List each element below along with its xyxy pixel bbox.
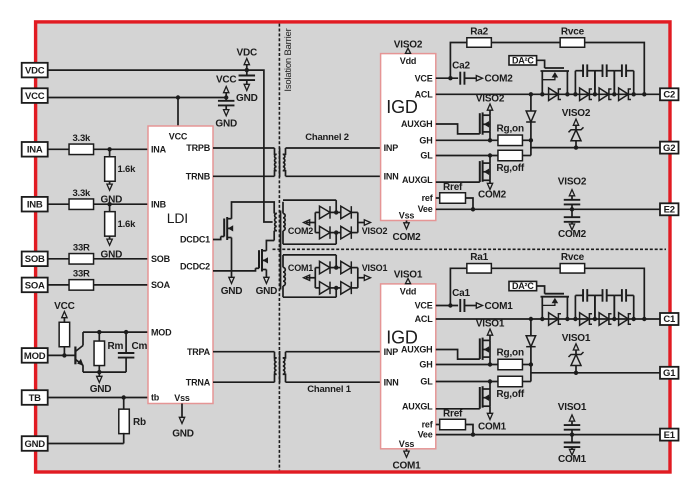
diode active clamp ch2 bbox=[530, 94, 532, 111]
svg-text:3.3k: 3.3k bbox=[72, 188, 91, 199]
diode D1c (desat chain 3) bbox=[599, 313, 609, 326]
wire Rg outputs to gate node ch2 bbox=[523, 139, 531, 141]
svg-text:INA: INA bbox=[27, 145, 43, 156]
diode D1d (desat chain 4) bbox=[619, 313, 629, 326]
connector TB bbox=[22, 390, 48, 405]
capacitor Ca1 bbox=[459, 299, 461, 312]
diode zener gate clamp ch1 bbox=[569, 352, 584, 357]
svg-text:ACL: ACL bbox=[415, 90, 434, 100]
svg-text:VISO2: VISO2 bbox=[558, 177, 587, 188]
svg-text:Rvce: Rvce bbox=[561, 252, 585, 263]
diode bridge COM2 row1 right bbox=[331, 211, 341, 213]
node VISO2 output bbox=[357, 212, 359, 232]
wire VCE line ch1 bbox=[436, 305, 458, 307]
diode bridge COM2 row2 right bbox=[331, 232, 341, 234]
resistor Rvce ch1 bbox=[560, 264, 585, 274]
svg-text:VCC: VCC bbox=[25, 91, 45, 102]
resistor MOD pull-up bbox=[59, 322, 70, 347]
op-amp U1 LDI driver IC bbox=[148, 126, 213, 404]
diode D2d (desat chain 4) bbox=[619, 88, 629, 101]
resistor 33R (SOB) bbox=[69, 254, 94, 264]
svg-text:GND: GND bbox=[236, 93, 258, 104]
svg-text:DA²C: DA²C bbox=[512, 281, 534, 291]
node VISO1 output bbox=[357, 268, 359, 288]
svg-text:TB: TB bbox=[29, 393, 42, 404]
diode bridge COM1 row2 right bbox=[331, 287, 341, 289]
wire ACL / C1 line bbox=[436, 318, 660, 320]
svg-text:TRPB: TRPB bbox=[186, 143, 210, 153]
diode bridge COM1 row1 right bbox=[331, 267, 341, 269]
connector MOD bbox=[22, 348, 48, 363]
svg-text:VCC: VCC bbox=[169, 132, 188, 142]
connector G1 bbox=[660, 367, 679, 379]
wire G1 line bbox=[531, 372, 660, 374]
svg-text:AUXGH: AUXGH bbox=[401, 119, 433, 129]
wire SOB line bbox=[48, 258, 148, 260]
resistor 3.3k (INA) bbox=[69, 144, 94, 155]
op-amp U IGD gate driver channel 2 bbox=[381, 54, 436, 221]
svg-text:33R: 33R bbox=[73, 243, 90, 254]
resistor Rvce ch2 bbox=[560, 38, 585, 48]
svg-text:1.6k: 1.6k bbox=[118, 164, 137, 175]
wire Rref to Vee ch1 bbox=[466, 425, 474, 435]
node COM1 (IGD Vss) bbox=[406, 449, 408, 451]
svg-text:VISO2: VISO2 bbox=[562, 108, 591, 119]
wire ref line ch2 bbox=[436, 197, 440, 199]
resistor Rg,on ch1 bbox=[498, 359, 523, 370]
diode D2c (desat chain 3) bbox=[599, 88, 609, 101]
wire bridge loop COM1 bbox=[283, 254, 336, 256]
transformer T1 secondary ch1 bbox=[282, 255, 284, 268]
svg-text:DCDC2: DCDC2 bbox=[180, 262, 210, 272]
connector SOA bbox=[22, 278, 48, 293]
svg-text:SOB: SOB bbox=[25, 254, 45, 265]
svg-text:Vee: Vee bbox=[418, 204, 433, 214]
svg-text:E2: E2 bbox=[664, 205, 675, 216]
wire INB line bbox=[48, 203, 148, 205]
diode D1b (desat chain 2) bbox=[580, 313, 590, 326]
resistor Rg,off ch1 bbox=[498, 376, 523, 387]
svg-text:GND: GND bbox=[215, 119, 237, 130]
wire DCDC1 drain to primary bbox=[232, 202, 275, 219]
svg-text:Vdd: Vdd bbox=[400, 286, 416, 296]
svg-text:GH: GH bbox=[419, 136, 432, 146]
wire boost source to GH ch1 bbox=[489, 357, 491, 364]
svg-text:TRNB: TRNB bbox=[186, 172, 211, 182]
resistor Rg,on ch2 bbox=[498, 135, 523, 146]
svg-text:SOB: SOB bbox=[151, 254, 171, 264]
wire DCDC2 source to ground bbox=[265, 270, 267, 278]
diode active clamp ch1 bbox=[530, 319, 532, 336]
wire TB line bbox=[48, 397, 148, 399]
wire bridge loop COM2 bbox=[283, 199, 336, 201]
wire Rvce to collector ch1 bbox=[585, 268, 645, 319]
svg-text:GH: GH bbox=[419, 360, 432, 370]
svg-text:INP: INP bbox=[384, 143, 399, 153]
wire INA line bbox=[48, 148, 148, 150]
wire GND connector line bbox=[48, 443, 124, 445]
wire GH line ch1 bbox=[436, 364, 498, 366]
svg-text:Ca1: Ca1 bbox=[452, 288, 470, 299]
capacitor E2-COM2 bbox=[571, 209, 573, 217]
diode bridge COM2 row1 left bbox=[315, 211, 319, 213]
connector C2 bbox=[660, 88, 679, 100]
resistor Ra1 bbox=[467, 264, 492, 274]
wire GH line ch2 bbox=[436, 139, 498, 141]
wire INN channel1 bbox=[286, 381, 382, 383]
svg-text:GND: GND bbox=[256, 286, 278, 297]
transformer T1 secondary ch2 bbox=[282, 202, 284, 214]
svg-text:INA: INA bbox=[151, 145, 167, 155]
svg-text:Rvce: Rvce bbox=[561, 26, 585, 37]
resistor Ra2 bbox=[467, 38, 492, 48]
svg-text:3.3k: 3.3k bbox=[72, 133, 91, 144]
ground (INB 1.6k) bbox=[107, 239, 112, 245]
svg-text:VISO1: VISO1 bbox=[558, 402, 587, 413]
svg-text:TRNA: TRNA bbox=[186, 377, 211, 387]
connector SOB bbox=[22, 252, 48, 267]
wire DCDC2 drain to primary bbox=[266, 241, 274, 251]
node COM2 (sink source) bbox=[489, 180, 491, 183]
svg-text:Vss: Vss bbox=[399, 211, 415, 221]
svg-text:DA²C: DA²C bbox=[512, 55, 534, 65]
svg-text:INN: INN bbox=[384, 172, 399, 182]
node VCC (arrow up) bbox=[225, 92, 227, 98]
svg-text:VISO2: VISO2 bbox=[476, 94, 505, 105]
svg-text:SOA: SOA bbox=[151, 280, 171, 290]
svg-text:ACL: ACL bbox=[415, 314, 434, 324]
transformer T1 core bbox=[280, 211, 282, 290]
svg-text:Channel 2: Channel 2 bbox=[305, 132, 349, 143]
wire emitter rail bbox=[83, 371, 126, 373]
wire Vee / E1 line bbox=[436, 434, 660, 436]
capacitor Cm bbox=[125, 332, 127, 353]
wire G2 line bbox=[531, 147, 660, 149]
wire MOD line bbox=[48, 354, 75, 356]
svg-text:TRPA: TRPA bbox=[187, 347, 211, 357]
transistor bypass MOSFET ch1 bbox=[537, 286, 545, 294]
svg-text:1.6k: 1.6k bbox=[118, 219, 137, 230]
diode bridge COM2 row2 left bbox=[315, 232, 319, 234]
transformer T2 (TRPB/TRNB) bbox=[213, 147, 275, 149]
svg-text:Vss: Vss bbox=[399, 439, 415, 449]
svg-text:VDC: VDC bbox=[237, 48, 258, 59]
svg-text:COM2: COM2 bbox=[288, 226, 313, 236]
diode D2a (desat chain 1) bbox=[549, 88, 559, 101]
node VISO2 (IGD Vdd) bbox=[405, 48, 410, 53]
diode zener gate clamp ch2 bbox=[569, 127, 584, 132]
svg-text:VCC: VCC bbox=[216, 75, 237, 86]
svg-text:Isolation Barrier: Isolation Barrier bbox=[283, 28, 294, 91]
wire Ra2 branch bbox=[450, 43, 467, 79]
transistor sink N-MOSFET ch1 bbox=[436, 408, 480, 410]
svg-text:Ca2: Ca2 bbox=[452, 61, 470, 72]
svg-text:Vee: Vee bbox=[418, 429, 433, 439]
connector E2 bbox=[660, 203, 679, 215]
wire DCDC1 source to ground bbox=[231, 238, 233, 278]
wire Ra1 to Rvce bbox=[491, 267, 560, 269]
svg-text:VISO1: VISO1 bbox=[476, 319, 505, 330]
svg-text:33R: 33R bbox=[73, 269, 90, 280]
diode D2b (desat chain 2) bbox=[580, 88, 590, 101]
svg-text:DCDC1: DCDC1 bbox=[180, 235, 210, 245]
svg-text:COM2: COM2 bbox=[558, 229, 587, 240]
connector VCC bbox=[22, 88, 48, 103]
svg-text:Cm: Cm bbox=[132, 341, 148, 352]
svg-text:COM2: COM2 bbox=[478, 189, 507, 200]
svg-text:Rb: Rb bbox=[133, 417, 146, 428]
svg-text:E1: E1 bbox=[664, 430, 676, 441]
svg-text:COM2: COM2 bbox=[392, 232, 421, 243]
op-amp U IGD gate driver channel 1 bbox=[381, 284, 436, 449]
diode bridge COM1 row1 left bbox=[315, 267, 319, 269]
wire ACL / C2 line bbox=[436, 93, 660, 95]
capacitor E1-COM1 bbox=[571, 435, 573, 443]
svg-text:AUXGL: AUXGL bbox=[402, 175, 433, 185]
wire boost source to GH ch2 bbox=[489, 132, 491, 140]
node COM1 (sink source) bbox=[489, 406, 491, 413]
capacitor VDC decoupling bbox=[246, 70, 248, 75]
ground (INA 1.6k) bbox=[107, 184, 112, 190]
svg-text:Rm: Rm bbox=[108, 341, 124, 352]
svg-text:COM1: COM1 bbox=[558, 454, 587, 465]
transistor boost P-MOSFET ch2 bbox=[436, 124, 480, 134]
node COM1 output bbox=[314, 268, 316, 288]
svg-text:GL: GL bbox=[420, 151, 433, 161]
capacitor VISO1-E1 bbox=[564, 424, 581, 426]
svg-text:GND: GND bbox=[172, 429, 194, 440]
transistor bypass MOSFET ch2 bbox=[537, 60, 545, 68]
diode D1a (desat chain 1) bbox=[549, 313, 559, 326]
ground (DCDC2) bbox=[264, 277, 269, 283]
wire Rvce to collector ch2 bbox=[585, 43, 645, 95]
svg-text:GND: GND bbox=[24, 439, 45, 450]
resistor Rg,off ch2 bbox=[498, 150, 523, 161]
capacitor VISO2-E2 bbox=[564, 199, 581, 201]
transistor boost P-MOSFET ch1 bbox=[436, 350, 480, 360]
svg-text:Ra2: Ra2 bbox=[470, 26, 488, 37]
node COM1 (after Ca1) bbox=[464, 305, 476, 307]
svg-text:MOD: MOD bbox=[24, 351, 46, 362]
channel separation (horizontal dashed line) bbox=[273, 248, 667, 250]
wire GL line ch1 bbox=[436, 381, 498, 383]
capacitor chain caps ch2 bbox=[574, 71, 576, 95]
diode bridge COM1 row2 left bbox=[315, 287, 319, 289]
svg-text:G1: G1 bbox=[663, 368, 676, 379]
svg-text:SOA: SOA bbox=[25, 280, 45, 291]
svg-text:Rg,on: Rg,on bbox=[497, 123, 524, 134]
svg-text:VISO2: VISO2 bbox=[394, 39, 423, 50]
wire Ra2 to Rvce bbox=[491, 42, 560, 44]
connector INA bbox=[22, 142, 48, 157]
transistor DCDC1 MOSFET bbox=[213, 237, 221, 240]
svg-text:LDI: LDI bbox=[167, 210, 188, 226]
ground (VDC cap) bbox=[244, 84, 249, 90]
wire INP channel1 bbox=[286, 351, 382, 353]
svg-text:VCE: VCE bbox=[415, 73, 433, 83]
svg-text:Ra1: Ra1 bbox=[470, 252, 488, 263]
capacitor chain caps ch1 bbox=[574, 295, 576, 319]
transistor DCDC2 MOSFET bbox=[213, 268, 256, 271]
transistor Q1 (MOD) bbox=[74, 347, 76, 365]
ground (DCDC1) bbox=[229, 277, 234, 283]
svg-text:C1: C1 bbox=[663, 314, 676, 325]
node COM2 (IGD Vss) bbox=[406, 221, 408, 223]
svg-text:MOD: MOD bbox=[151, 327, 172, 337]
node COM2 (after Ca2) bbox=[464, 77, 476, 79]
wire SOA line bbox=[48, 284, 148, 286]
svg-text:Rref: Rref bbox=[443, 182, 463, 193]
resistor 33R (SOA) bbox=[69, 280, 94, 291]
wire VCC to LDI bbox=[177, 98, 179, 127]
svg-text:Vdd: Vdd bbox=[400, 56, 416, 66]
svg-text:COM1: COM1 bbox=[392, 460, 421, 471]
resistor 1.6k (INA pulldown) bbox=[109, 149, 111, 157]
svg-text:COM1: COM1 bbox=[478, 422, 507, 433]
wire ref line ch1 bbox=[436, 424, 440, 426]
svg-text:GL: GL bbox=[420, 377, 433, 387]
resistor Rm bbox=[98, 332, 100, 341]
connector GND bbox=[22, 436, 48, 451]
svg-text:COM2: COM2 bbox=[485, 74, 514, 85]
transformer T3 (TRPA/TRNA) bbox=[213, 351, 275, 353]
resistor Rref ch1 bbox=[440, 419, 466, 430]
svg-text:AUXGH: AUXGH bbox=[401, 345, 433, 355]
wire VCE line ch2 bbox=[436, 77, 458, 79]
ground (MOD emitter) bbox=[98, 372, 100, 376]
node COM2 output bbox=[314, 212, 316, 232]
svg-text:INN: INN bbox=[384, 377, 399, 387]
svg-text:VISO2: VISO2 bbox=[362, 226, 388, 236]
DA²C block ch2 bbox=[509, 56, 537, 65]
transformer T1 DCDC (primary) bbox=[275, 214, 277, 231]
wire INP channel2 bbox=[286, 147, 381, 149]
isolation barrier (vertical dashed line) bbox=[278, 24, 280, 471]
svg-text:INB: INB bbox=[151, 199, 167, 209]
svg-text:tb: tb bbox=[151, 393, 160, 403]
wire Rg outputs to gate node ch1 bbox=[523, 364, 531, 366]
connector E1 bbox=[660, 429, 679, 441]
wire MOD rail (collector to LDI MOD pin) bbox=[83, 331, 148, 333]
resistor 1.6k (INB pulldown) bbox=[109, 204, 111, 212]
svg-text:G2: G2 bbox=[663, 143, 675, 154]
svg-text:VISO1: VISO1 bbox=[562, 333, 591, 344]
DA²C block ch1 bbox=[509, 281, 537, 290]
capacitor Ca2 bbox=[459, 72, 461, 85]
node VISO1 (IGD Vdd) bbox=[405, 279, 410, 284]
ground (VCC cap) bbox=[224, 110, 229, 116]
resistor Rb bbox=[123, 398, 125, 410]
resistor 3.3k (INB) bbox=[69, 199, 94, 210]
svg-text:ref: ref bbox=[422, 193, 434, 203]
wire INN channel2 bbox=[286, 175, 381, 177]
resistor Rref ch2 bbox=[440, 193, 466, 204]
svg-text:IGD: IGD bbox=[386, 97, 418, 117]
svg-text:VDC: VDC bbox=[25, 66, 45, 77]
connector C1 bbox=[660, 313, 679, 325]
svg-text:INP: INP bbox=[384, 347, 399, 357]
svg-text:Rg,off: Rg,off bbox=[496, 389, 525, 400]
svg-text:ref: ref bbox=[422, 420, 434, 430]
svg-text:VCE: VCE bbox=[415, 301, 433, 311]
node VDC (arrow up) bbox=[246, 65, 248, 71]
svg-text:COM1: COM1 bbox=[288, 263, 313, 273]
connector INB bbox=[22, 197, 48, 212]
capacitor VCC decoupling bbox=[225, 98, 227, 101]
svg-text:GND: GND bbox=[90, 384, 112, 395]
svg-text:Rg,on: Rg,on bbox=[497, 348, 524, 359]
connector VDC bbox=[22, 63, 48, 78]
wire Ra1 branch bbox=[450, 268, 467, 305]
wire VDC rail bbox=[48, 70, 273, 222]
transistor sink N-MOSFET ch2 bbox=[436, 181, 480, 183]
svg-text:AUXGL: AUXGL bbox=[402, 402, 433, 412]
wire VCC rail bbox=[48, 97, 227, 99]
svg-text:INB: INB bbox=[27, 200, 43, 211]
svg-text:VISO1: VISO1 bbox=[362, 263, 388, 273]
wire GL line ch2 bbox=[436, 155, 498, 157]
svg-text:Rref: Rref bbox=[443, 409, 463, 420]
wire Rref to Vee ch2 bbox=[466, 198, 474, 209]
svg-text:Vss: Vss bbox=[174, 393, 190, 403]
svg-text:Channel 1: Channel 1 bbox=[307, 384, 352, 395]
svg-text:VISO1: VISO1 bbox=[394, 270, 423, 281]
ground (LDI Vss) bbox=[181, 404, 183, 418]
svg-text:GND: GND bbox=[221, 286, 243, 297]
connector G2 bbox=[660, 142, 679, 154]
wire Vee / E2 line bbox=[436, 208, 660, 210]
svg-text:COM1: COM1 bbox=[485, 301, 514, 312]
svg-text:Rg,off: Rg,off bbox=[496, 163, 525, 174]
svg-text:C2: C2 bbox=[663, 90, 675, 101]
